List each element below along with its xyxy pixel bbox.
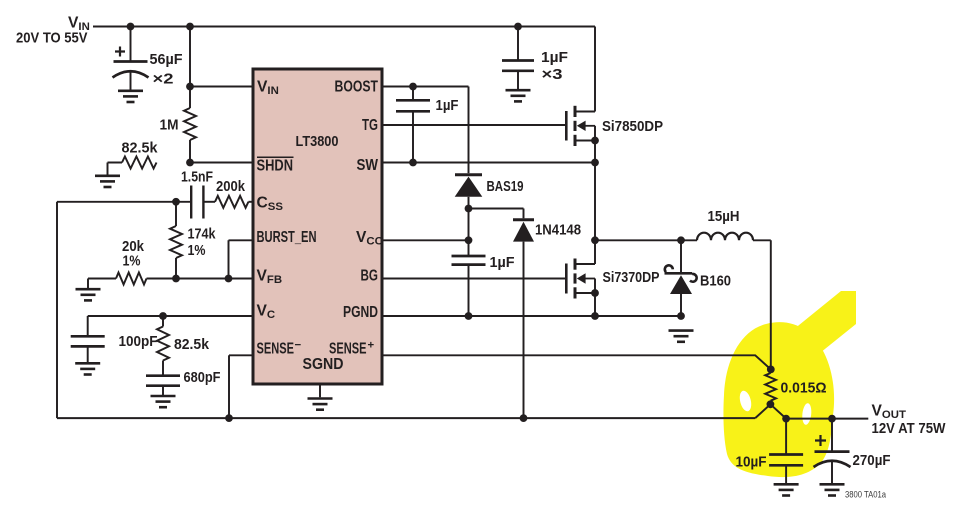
ground 1uF x3 xyxy=(506,90,531,101)
wire SW vertical to Q2 xyxy=(594,163,596,241)
wire Q1 source to SW xyxy=(594,141,596,163)
svg-text:174k: 174k xyxy=(188,227,217,243)
wire 174k to VFB xyxy=(175,258,177,279)
wire boost cap top stem xyxy=(412,87,414,101)
wire BG line xyxy=(382,278,565,280)
highlighter white gap right xyxy=(801,403,812,425)
wire BOOST line xyxy=(382,86,469,88)
svg-text:×3: ×3 xyxy=(542,67,563,83)
wire SW line xyxy=(382,162,595,164)
ground 20k xyxy=(76,289,101,300)
wire Q2 source stub xyxy=(575,292,595,294)
svg-text:TG: TG xyxy=(362,117,378,134)
wire VCC cap to PGND xyxy=(468,265,470,316)
transistor Q2 body arrow xyxy=(577,273,595,283)
wire SENSE- drop to output xyxy=(228,355,230,418)
wire inductor to output corner xyxy=(753,239,771,241)
svg-text:0.015Ω: 0.015Ω xyxy=(781,381,827,397)
resistor 20k xyxy=(116,273,147,285)
wire 270uF bottom stem xyxy=(831,461,833,483)
diode 1N4148 xyxy=(513,220,534,242)
junction SW node xyxy=(591,159,599,167)
wire B160 cathode stem xyxy=(680,240,682,272)
capacitor 56uF x2 plus sign xyxy=(115,47,125,57)
junction bottom rail at SENSE- xyxy=(225,414,233,422)
wire B160 anode to PGND xyxy=(680,294,682,316)
wire Q1 body to source xyxy=(594,126,596,141)
svg-text:100pF: 100pF xyxy=(119,334,158,350)
svg-text:SHDN: SHDN xyxy=(257,157,294,174)
svg-text:10µF: 10µF xyxy=(736,455,767,471)
wire PGND line xyxy=(382,315,681,317)
junction VCC node xyxy=(465,236,473,244)
svg-text:VOUT: VOUT xyxy=(872,403,906,422)
junction SHDN node xyxy=(186,159,194,167)
wire 200k to CSS pin xyxy=(248,201,253,203)
svg-text:Si7370DP: Si7370DP xyxy=(603,269,660,286)
wire boost cap to SW xyxy=(412,111,414,162)
wire sense top stub xyxy=(770,369,772,373)
wire TG line xyxy=(382,124,565,126)
junction VFB at 174k xyxy=(172,275,180,283)
wire output drop to sense resistor xyxy=(770,240,772,369)
ground 10uF xyxy=(774,484,799,495)
junction VOUT at 270uF xyxy=(828,415,836,423)
diode B160 schottky cathode xyxy=(665,265,697,281)
capacitor C 56uF x2 curved plate xyxy=(113,71,149,77)
junction SW at boost cap xyxy=(409,159,417,167)
capacitor 680pF xyxy=(146,376,180,386)
resistor 1M xyxy=(184,108,196,140)
resistor 0.015 ohm xyxy=(765,373,776,401)
wire Q1 source stub xyxy=(575,140,595,142)
svg-text:BAS19: BAS19 xyxy=(487,178,524,195)
wire sense bottom stub xyxy=(770,401,772,405)
svg-text:SENSE: SENSE xyxy=(329,340,367,357)
wire Q1 drain stub xyxy=(575,111,595,113)
wire sense to right rail diagonal xyxy=(770,404,786,418)
wire bottom VOUT rail xyxy=(57,417,755,419)
capacitor 270uF curved plate xyxy=(814,461,851,467)
capacitor 1uF x3 xyxy=(502,61,534,71)
highlighter white gap left xyxy=(738,390,753,413)
wire 1M to SHDN node xyxy=(189,140,191,163)
svg-text:SW: SW xyxy=(357,157,379,174)
capacitor 1.5nF xyxy=(191,186,203,219)
ground B160 xyxy=(669,331,694,342)
highlighter mark arm xyxy=(788,291,856,361)
svg-text:3800 TA01a: 3800 TA01a xyxy=(845,490,886,500)
capacitor 1uF vcc xyxy=(452,256,486,265)
wire 20k ground stub xyxy=(88,279,116,289)
transistor Q2 Si7370DP gate bar xyxy=(565,264,568,294)
capacitor 270uF plus sign xyxy=(815,435,826,446)
wire SENSE+ line xyxy=(382,355,771,369)
junction BAS19-1N4148 node xyxy=(465,205,473,213)
wire 56uF bottom stem xyxy=(130,71,132,90)
svg-text:680pF: 680pF xyxy=(184,370,221,386)
pin label SHDN overline xyxy=(257,156,294,158)
wire 1uFx3 bottom stem xyxy=(517,71,519,89)
junction PGND end at B160 xyxy=(677,312,685,320)
junction CSS divider node xyxy=(172,198,180,206)
wire VCC line xyxy=(382,239,469,241)
junction top rail at 56uF xyxy=(127,23,135,31)
wire VIN branch vertical xyxy=(189,27,191,109)
svg-text:1N4148: 1N4148 xyxy=(535,221,581,238)
svg-text:1µF: 1µF xyxy=(490,255,515,271)
svg-text:12V AT 75W: 12V AT 75W xyxy=(872,420,947,437)
svg-text:82.5k: 82.5k xyxy=(174,337,210,353)
wire CSS node line xyxy=(57,201,191,203)
ground 270uF xyxy=(820,484,845,495)
wire SHDN to IC xyxy=(190,162,253,164)
svg-text:1.5nF: 1.5nF xyxy=(181,170,213,186)
svg-text:200k: 200k xyxy=(216,179,246,195)
wire 10uF top stem xyxy=(785,419,787,455)
svg-text:−: − xyxy=(295,340,302,352)
junction BOOST at 1uF xyxy=(409,83,417,91)
svg-text:BOOST: BOOST xyxy=(335,79,379,96)
junction top rail at 1uF x3 xyxy=(514,23,522,31)
transistor Q2 channel segments xyxy=(574,259,577,299)
resistor 82.5k vc xyxy=(157,327,169,361)
svg-text:PGND: PGND xyxy=(343,304,378,321)
junction VOUT at 10uF xyxy=(782,415,790,423)
svg-text:1M: 1M xyxy=(160,118,179,134)
transistor Q1 Si7850DP gate bar xyxy=(565,111,568,141)
wire Q2 body to source xyxy=(594,279,596,294)
svg-text:SENSE: SENSE xyxy=(257,340,295,357)
junction PGND at vcc cap xyxy=(465,312,473,320)
svg-text:BG: BG xyxy=(361,267,379,284)
op-amp U1 LT3800 body xyxy=(253,69,382,384)
junction sense resistor bottom xyxy=(767,400,775,408)
resistor 200k xyxy=(215,196,248,208)
wire BAS19 anode to VCC xyxy=(468,197,470,241)
ground 680pF xyxy=(151,396,176,407)
wire sense to left rail diagonal xyxy=(755,404,770,418)
wire VFB line to IC xyxy=(147,278,254,280)
resistor 174k xyxy=(170,226,182,258)
junction bottom rail at 1N4148 xyxy=(520,414,528,422)
svg-text:BURST_EN: BURST_EN xyxy=(257,229,317,246)
wire 100pF top stem xyxy=(87,316,89,336)
highlighter mark blob xyxy=(723,322,834,477)
junction PGND at Q2 source xyxy=(591,312,599,320)
svg-text:15µH: 15µH xyxy=(708,209,740,225)
wire SENSE- stub xyxy=(229,354,253,356)
wire VC line xyxy=(88,315,253,317)
wire VOUT rail right xyxy=(786,418,868,420)
wire 1N4148 anode to VOUT rail xyxy=(523,242,525,419)
svg-text:82.5k: 82.5k xyxy=(122,140,159,156)
junction sense resistor top xyxy=(767,366,775,374)
capacitor 1uF boost xyxy=(396,100,430,111)
svg-text:1%: 1% xyxy=(188,243,206,259)
svg-text:×2: ×2 xyxy=(153,72,174,88)
ground 100pF xyxy=(75,363,100,374)
junction VIN pin branch xyxy=(186,83,194,91)
junction VFB at BURST_EN xyxy=(225,275,233,283)
junction VC node xyxy=(159,312,167,320)
wire 100pF bottom stem xyxy=(87,346,89,362)
ground 56uF xyxy=(118,91,143,102)
wire 270uF top stem xyxy=(831,419,833,452)
wire node to 1N4148 xyxy=(469,208,524,210)
wire switch node line xyxy=(595,239,697,241)
capacitor 10uF xyxy=(769,455,803,466)
wire BOOST down to BAS19 xyxy=(468,87,470,174)
wire 1.5nF to 200k xyxy=(203,201,215,203)
transistor Q1 body arrow xyxy=(577,121,595,131)
wire VOUT feed left rail xyxy=(56,202,58,418)
svg-text:1%: 1% xyxy=(123,253,141,269)
junction Q1 source xyxy=(591,137,599,145)
svg-text:+: + xyxy=(368,340,375,352)
wire 1N4148 cathode stub xyxy=(523,209,525,219)
wire VIN pin xyxy=(190,86,253,88)
junction at B160 cathode xyxy=(677,236,685,244)
wire rail down to Q1 drain xyxy=(594,27,596,112)
wire 10uF bottom stem xyxy=(785,465,787,483)
capacitor 100pF xyxy=(71,336,105,346)
svg-text:SGND: SGND xyxy=(303,356,344,373)
svg-text:B160: B160 xyxy=(700,272,731,289)
diode BAS19 xyxy=(455,175,483,197)
svg-text:270µF: 270µF xyxy=(853,453,891,469)
wire BURST_EN drop xyxy=(229,240,254,278)
svg-text:1µF: 1µF xyxy=(541,50,568,66)
ground 82.5k shdn xyxy=(95,176,120,187)
wire 56uF top stem xyxy=(130,27,132,62)
transistor Q1 channel segments xyxy=(574,106,577,146)
ground SGND xyxy=(308,399,333,410)
resistor 82.5k shdn xyxy=(122,157,157,169)
wire Q2 drain stub xyxy=(575,263,595,265)
svg-text:1µF: 1µF xyxy=(436,98,459,114)
wire VIN top rail xyxy=(93,26,595,28)
inductor L1 15uH xyxy=(697,233,753,241)
svg-text:LT3800: LT3800 xyxy=(296,134,339,150)
junction switch node at inductor line xyxy=(591,236,599,244)
capacitor 270uF positive plate xyxy=(815,450,850,453)
junction top rail at VIN branch xyxy=(186,23,194,31)
svg-text:56µF: 56µF xyxy=(150,52,183,68)
wire SGND stem xyxy=(319,384,321,397)
junction Q2 source xyxy=(591,289,599,297)
svg-text:Si7850DP: Si7850DP xyxy=(602,118,663,135)
wire 174k top stub xyxy=(175,202,177,226)
wire 1uFx3 top stem xyxy=(517,27,519,61)
wire Q2 drain stem xyxy=(594,240,596,264)
wire 82.5k left stub xyxy=(108,163,123,175)
diode B160 triangle xyxy=(670,275,692,294)
svg-text:20V TO 55V: 20V TO 55V xyxy=(16,30,88,47)
wire 82.5k vc top stub xyxy=(162,316,164,327)
capacitor C 56uF x2 positive plate xyxy=(114,60,148,63)
wire Q2 source to PGND xyxy=(594,293,596,316)
wire VCC cap top stem xyxy=(468,240,470,256)
wire 82.5k vc to 680pF xyxy=(162,361,164,376)
wire 680pF bottom stem xyxy=(162,386,164,395)
